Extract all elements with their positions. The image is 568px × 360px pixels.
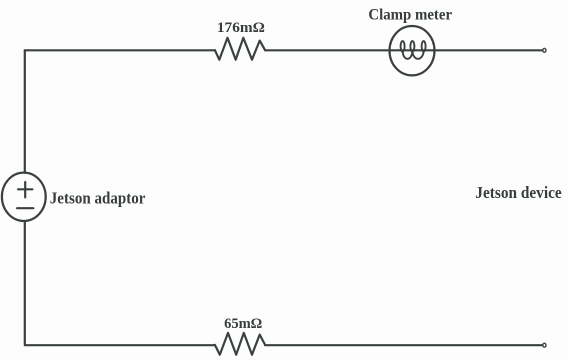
svg-text:Jetson adaptor: Jetson adaptor — [50, 189, 146, 208]
svg-text:Clamp meter: Clamp meter — [368, 7, 452, 24]
svg-text:Jetson device: Jetson device — [475, 183, 561, 202]
svg-text:65mΩ: 65mΩ — [224, 316, 262, 332]
svg-text:176mΩ: 176mΩ — [217, 20, 265, 36]
